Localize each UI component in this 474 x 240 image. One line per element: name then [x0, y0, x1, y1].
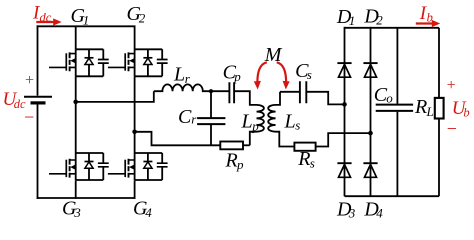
svg-text:L: L [173, 64, 185, 86]
wire: right leg segment bottom (below G4) [134, 180, 136, 199]
wire: rectifier bottom rail [345, 195, 440, 197]
svg-text:b: b [463, 106, 469, 120]
svg-text:3: 3 [348, 206, 356, 221]
junction dot Cr top [209, 89, 213, 93]
svg-text:L: L [426, 104, 434, 119]
svg-text:−: − [23, 107, 35, 127]
capacitor Cs [300, 81, 306, 103]
current arrow Ib [416, 22, 433, 24]
capacitor Co [396, 28, 398, 196]
svg-text:+: + [446, 77, 457, 94]
svg-text:p: p [251, 119, 259, 134]
svg-text:dc: dc [40, 11, 52, 25]
svg-text:3: 3 [73, 205, 81, 220]
svg-text:b: b [427, 11, 433, 25]
svg-text:L: L [284, 111, 296, 133]
junction dot rectifier right input [368, 131, 373, 136]
wire: left leg segment top (to G1) [75, 26, 77, 49]
junction dot rectifier left input [342, 102, 347, 107]
wire: rectifier left leg [344, 27, 346, 196]
resistor Rs [294, 143, 315, 151]
transistor Q4 (switch G4 MOSFET cell) [108, 153, 168, 180]
diode D2 [363, 63, 377, 77]
wire: Cp to Lp [234, 91, 256, 105]
current arrow Idc [36, 21, 54, 23]
svg-text:4: 4 [145, 205, 152, 220]
battery Udc short plate [31, 101, 46, 104]
wire: rectifier right leg [370, 27, 372, 196]
resistor RL [438, 28, 440, 196]
wire: inverter bottom rail [37, 197, 136, 199]
resistor Rp [220, 142, 243, 150]
capacitor Cr [210, 91, 212, 145]
svg-text:s: s [307, 67, 312, 82]
svg-text:1: 1 [349, 13, 356, 28]
svg-text:R: R [225, 150, 238, 172]
battery Udc long plate [24, 96, 52, 98]
wire: node B to primary bottom rail [135, 132, 221, 146]
transistor Q3 (switch G3 MOSFET cell) [49, 153, 109, 180]
svg-text:p: p [236, 157, 244, 172]
wire: node A to Lr [76, 91, 154, 102]
inductor Ls [268, 92, 294, 147]
svg-text:+: + [24, 72, 35, 89]
wire: right leg segment middle (G2 to G4) [134, 76, 136, 153]
svg-text:2: 2 [376, 13, 383, 28]
inductor Lp [250, 105, 264, 145]
svg-text:o: o [386, 91, 393, 106]
node A junction dot [73, 100, 78, 105]
wire: Rp to Lp bottom [243, 144, 250, 146]
wire: left leg segment bottom (below G3) [75, 180, 77, 199]
wire: inverter top rail [37, 25, 136, 27]
svg-text:p: p [233, 69, 241, 84]
wire: right leg segment top (to G2) [134, 26, 136, 49]
wire: rectifier top rail [345, 27, 440, 29]
svg-text:C: C [178, 106, 192, 128]
svg-text:1: 1 [83, 13, 90, 28]
wire: DC source left rail lower [37, 105, 39, 199]
svg-text:R: R [297, 148, 310, 170]
svg-text:s: s [295, 118, 300, 133]
transistor Q1 (switch G1 MOSFET cell) [49, 49, 109, 76]
coupling arrow right [277, 62, 286, 83]
svg-text:s: s [310, 156, 315, 171]
diode D1 [337, 63, 351, 77]
diode D4 [363, 163, 377, 177]
wire: DC source left rail upper [37, 25, 39, 95]
svg-text:4: 4 [376, 206, 383, 221]
coupling arrow left [257, 62, 266, 83]
svg-text:R: R [414, 96, 427, 118]
svg-text:L: L [241, 111, 253, 133]
svg-text:−: − [446, 119, 458, 139]
svg-text:2: 2 [139, 11, 146, 26]
wire: Ls top to Cs [280, 91, 300, 93]
diode D3 [337, 163, 351, 177]
wire: Cs to rectifier left leg [306, 92, 344, 105]
capacitor Cp [229, 82, 234, 103]
node B junction dot [132, 130, 137, 135]
wire: Rs to rectifier right leg [316, 133, 371, 146]
wire: left leg segment middle (G1 to G3) [75, 76, 77, 153]
inductor Lr [154, 84, 229, 91]
transistor Q2 (switch G2 MOSFET cell) [108, 49, 168, 76]
